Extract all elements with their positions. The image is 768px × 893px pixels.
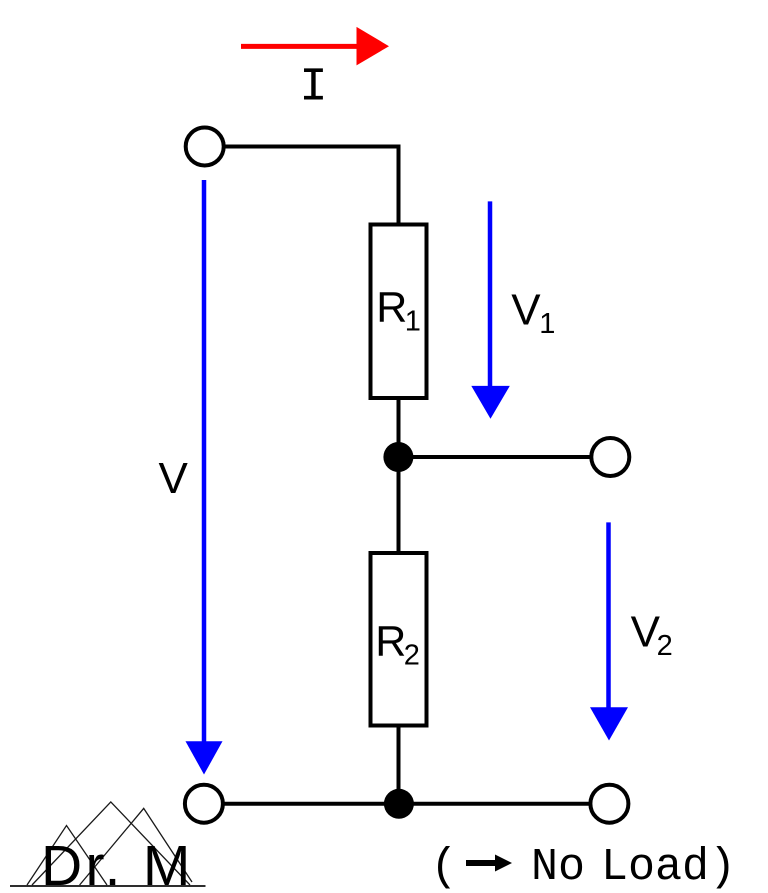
voltage arrow V2 (blue) bbox=[590, 522, 628, 740]
svg-text:V: V bbox=[159, 454, 189, 503]
svg-text:2: 2 bbox=[657, 630, 673, 662]
svg-text:Dr. M: Dr. M bbox=[41, 834, 194, 893]
node A (mid junction dot) bbox=[383, 442, 413, 472]
wire top horizontal bbox=[224, 145, 401, 149]
svg-text:(: ( bbox=[431, 842, 458, 893]
wire R2 to node B bbox=[397, 724, 401, 806]
svg-text:1: 1 bbox=[405, 306, 421, 338]
terminal A (top-left) bbox=[186, 128, 224, 166]
svg-text:2: 2 bbox=[404, 640, 420, 672]
logo mountain 2 bbox=[32, 802, 190, 885]
terminal D (bottom-right) bbox=[590, 785, 628, 823]
voltage arrow V1 (blue) bbox=[471, 201, 510, 418]
logo mountain 3 bbox=[80, 808, 192, 885]
wire bottom horizontal bbox=[223, 802, 591, 806]
wire R1 to node A bbox=[397, 396, 401, 459]
label V1 bbox=[511, 285, 555, 340]
current arrow I (red) bbox=[241, 27, 389, 66]
voltage arrow V (blue, left) bbox=[186, 180, 223, 775]
logo mountain 1 bbox=[27, 826, 107, 886]
resistor R2 bbox=[371, 553, 427, 726]
svg-text:No: No bbox=[531, 842, 585, 893]
svg-text:1: 1 bbox=[539, 308, 555, 340]
label R2 bbox=[375, 618, 420, 672]
terminal B (mid-right) bbox=[591, 438, 629, 476]
svg-text:V: V bbox=[511, 285, 541, 334]
wire mid horizontal bbox=[398, 455, 591, 459]
logo underline bbox=[10, 885, 206, 887]
terminal C (bottom-left) bbox=[185, 785, 223, 823]
svg-text:I: I bbox=[299, 62, 327, 115]
wire node A to R2 bbox=[397, 457, 401, 555]
svg-text:Load): Load) bbox=[601, 842, 736, 893]
no-load note: black arrow bbox=[466, 855, 512, 872]
node B (bottom junction dot) bbox=[384, 789, 414, 819]
svg-text:R: R bbox=[376, 284, 407, 332]
label R1 bbox=[376, 284, 421, 338]
svg-text:R: R bbox=[375, 618, 406, 666]
label V2 bbox=[631, 608, 673, 663]
wire top vertical into R1 bbox=[397, 145, 401, 227]
resistor R1 bbox=[371, 225, 427, 399]
